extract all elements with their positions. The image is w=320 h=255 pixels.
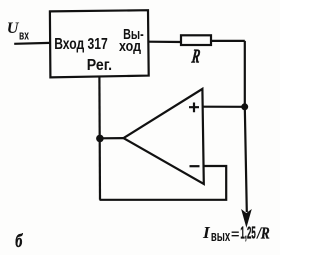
wire: box output to resistor [149, 41, 181, 43]
arrow head (output current) [242, 210, 251, 226]
svg-text:Рег.: Рег. [87, 57, 112, 74]
svg-text:/R: /R [256, 223, 270, 242]
svg-text:б: б [15, 230, 23, 251]
svg-text:U: U [7, 19, 20, 37]
svg-text:ход: ход [119, 39, 141, 55]
node A (junction dot op-amp output) [96, 135, 104, 143]
regulator box U1 (317) [50, 10, 149, 77]
wire: output rail (vertical, to arrow) [245, 41, 247, 212]
wire: resistor to output rail [211, 40, 245, 42]
svg-text:Вход 317: Вход 317 [54, 36, 108, 53]
svg-text:R: R [190, 44, 202, 67]
node B (junction dot on rail) [241, 103, 248, 110]
svg-text:=: = [231, 226, 240, 241]
svg-text:I: I [202, 223, 211, 242]
svg-text:вых: вых [211, 228, 231, 245]
wire: node to op-amp output apex [100, 137, 124, 139]
wire: - input feedback step [100, 166, 227, 200]
minus sign (inverting input) [190, 165, 200, 167]
resistor R [181, 35, 211, 45]
wire: Рег pin down from box [98, 76, 101, 199]
wire: input to box [14, 42, 50, 45]
plus sign (noninverting input) [189, 103, 199, 113]
svg-text:вх: вх [19, 27, 29, 42]
wire: + input to output rail [203, 106, 245, 108]
svg-text:1,25: 1,25 [240, 223, 255, 243]
op-amp U2 (triangle, output at left apex) [124, 89, 204, 184]
